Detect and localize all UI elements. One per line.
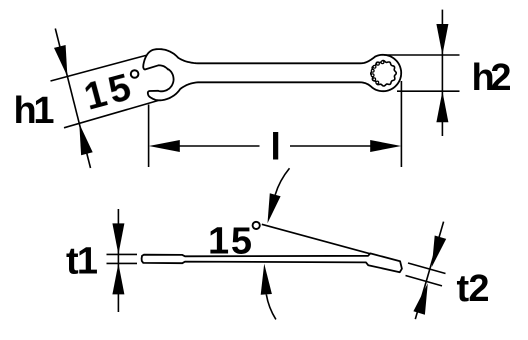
svg-text:15: 15 bbox=[208, 221, 252, 263]
angle arc upper arrowhead bbox=[268, 193, 281, 223]
l arrowhead left bbox=[149, 140, 180, 152]
h2 extension line lower bbox=[397, 90, 460, 92]
degree symbol top bbox=[131, 70, 139, 78]
l dimension line left segment bbox=[179, 145, 260, 147]
t2 extension line lower bbox=[406, 276, 443, 286]
l arrowhead right bbox=[370, 140, 401, 152]
t2 arrowhead upper bbox=[432, 236, 446, 268]
h2 dimension line bbox=[441, 10, 443, 136]
svg-text:h2: h2 bbox=[472, 57, 512, 99]
t2 dimension line bbox=[415, 222, 443, 320]
angle arc lower arrowhead bbox=[261, 264, 272, 295]
t1 arrowhead lower bbox=[112, 263, 124, 294]
h2 arrowhead lower bbox=[436, 91, 448, 122]
h1 extension line upper bbox=[51, 55, 148, 81]
svg-text:t2: t2 bbox=[457, 268, 490, 310]
h1 dimension line bbox=[55, 29, 90, 169]
t2 extension line upper bbox=[408, 263, 446, 274]
angle arc upper bbox=[275, 168, 289, 195]
h1 extension line lower bbox=[64, 101, 158, 128]
l extension line right bbox=[400, 81, 402, 167]
svg-text:h1: h1 bbox=[14, 90, 55, 132]
h1 arrowhead lower bbox=[79, 124, 92, 156]
t1 extension line lower bbox=[107, 262, 138, 264]
t2 arrowhead lower bbox=[413, 283, 427, 315]
h2 extension line upper bbox=[384, 54, 460, 56]
svg-text:l: l bbox=[270, 127, 281, 169]
h2 arrowhead upper bbox=[436, 24, 448, 55]
t1 dimension line bbox=[117, 209, 119, 312]
t1 extension line upper bbox=[107, 253, 138, 255]
l dimension line right segment bbox=[290, 145, 372, 147]
l extension line left bbox=[148, 105, 150, 168]
15 degree reference line (bottom view) bbox=[262, 224, 371, 254]
degree symbol bottom bbox=[253, 222, 260, 229]
ring bore 12-point profile bbox=[371, 61, 396, 86]
wrench top view silhouette bbox=[143, 49, 401, 100]
t1 arrowhead upper bbox=[112, 223, 124, 254]
svg-text:t1: t1 bbox=[66, 241, 98, 283]
ratchet teeth dots bbox=[371, 61, 384, 84]
wrench side profile bbox=[142, 253, 402, 272]
angle arc lower bbox=[266, 294, 276, 319]
h1 arrowhead upper bbox=[54, 45, 67, 77]
label 15 degrees (top view, rotated) bbox=[80, 66, 135, 118]
